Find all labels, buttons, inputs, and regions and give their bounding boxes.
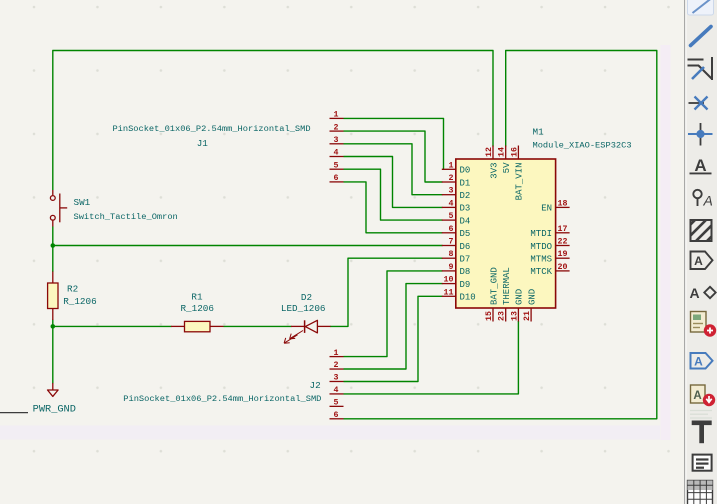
resistor R2 body [48, 272, 58, 321]
toolbar separator lines [690, 411, 712, 419]
svg-text:4: 4 [334, 386, 339, 395]
svg-text:23: 23 [498, 311, 507, 321]
svg-text:D2: D2 [301, 292, 312, 303]
M1 right pin names EN,MTDI,MTDO,MTMS,MTCK [530, 204, 552, 278]
M1 bottom pin numbers 15,23,13,21 [485, 311, 532, 321]
svg-text:R1: R1 [191, 292, 203, 303]
wire R1 pin 2 to LED D2 anode [224, 325, 292, 327]
wire R2 pin 2 down to junction B [52, 320, 54, 328]
toolbar icon: highlight net (top, partially cut) [688, 0, 714, 15]
resistor R1 body [171, 321, 224, 331]
J2 reference label [310, 380, 321, 391]
svg-text:R_1206: R_1206 [63, 296, 96, 307]
R2 value label R_1206 [63, 296, 96, 307]
svg-text:M1: M1 [533, 127, 545, 138]
svg-text:4: 4 [449, 199, 454, 208]
M1 top pin numbers 12,14,16 [485, 147, 519, 157]
svg-text:EN: EN [541, 204, 552, 214]
svg-text:1: 1 [334, 111, 339, 120]
svg-text:D10: D10 [460, 293, 476, 303]
junction A [51, 243, 56, 248]
wire net 3V3: from top-left rail to M1 pin 12 [53, 51, 493, 191]
M1 left pin names D0-D10 [460, 166, 476, 303]
toolbar icon: net label [690, 156, 712, 175]
svg-text:Module_XIAO-ESP32C3: Module_XIAO-ESP32C3 [533, 141, 632, 151]
wire J2 pin 3 to M1 pin 11 (D10) [344, 296, 443, 381]
svg-text:D5: D5 [460, 229, 471, 239]
svg-text:3V3: 3V3 [489, 163, 499, 179]
D2 reference label [301, 292, 312, 303]
svg-text:D8: D8 [460, 267, 471, 277]
J1 footprint label PinSocket_01x06_P2.54mm_Horizontal_SMD [112, 124, 310, 134]
wire J1 pin 3 to M1 pin 3 (D2) [344, 144, 443, 195]
toolbar icon: add text [692, 421, 712, 444]
M1 reference label [533, 127, 545, 138]
svg-text:16: 16 [510, 147, 519, 157]
wire LED D2 to M1 pin 8 (D7) [330, 258, 443, 326]
svg-text:18: 18 [558, 199, 568, 208]
svg-text:MTCK: MTCK [530, 267, 552, 277]
svg-text:MTDO: MTDO [530, 242, 552, 252]
svg-text:THERMAL: THERMAL [502, 267, 512, 305]
wire J1 pin 6 to M1 pin 6 (D5) [344, 182, 443, 233]
svg-text:2: 2 [449, 174, 454, 183]
svg-text:A: A [694, 355, 703, 369]
J2 footprint label PinSocket_01x06_P2.54mm_Horizontal_SMD [123, 394, 321, 404]
svg-text:D9: D9 [460, 280, 471, 290]
toolbar icon: global label [691, 252, 713, 270]
R2 reference label [67, 284, 78, 295]
toolbar icon: hierarchical sheet with add badge [691, 312, 717, 337]
wire junction B down to PWR_GND [52, 326, 54, 384]
svg-text:10: 10 [444, 276, 454, 285]
svg-text:5: 5 [334, 399, 339, 408]
svg-text:D2: D2 [460, 191, 471, 201]
R1 value label R_1206 [180, 303, 213, 314]
connector J1 pin stubs 1-6 [330, 118, 344, 181]
wire SW1 bottom to junction A [52, 227, 54, 247]
svg-text:5V: 5V [502, 162, 512, 173]
M1 right pin numbers 18,17,22,19,20 [558, 199, 568, 272]
svg-text:1: 1 [334, 349, 339, 358]
toolbar icon: no-connect flag [689, 97, 708, 110]
wire junction B to R1 pin 1 [53, 325, 172, 327]
D2 value label LED_1206 [281, 303, 326, 314]
svg-text:PinSocket_01x06_P2.54mm_Horizo: PinSocket_01x06_P2.54mm_Horizontal_SMD [123, 394, 321, 404]
svg-text:5: 5 [449, 212, 454, 221]
svg-text:7: 7 [449, 238, 454, 247]
toolbar icon: directive label [693, 190, 713, 209]
wire stub at left screen edge [0, 412, 28, 414]
svg-text:5: 5 [334, 161, 339, 170]
M1 left pins 1-11 (D0-D10) stubs [442, 169, 456, 296]
toolbar icon: add wire [691, 27, 712, 46]
svg-text:1: 1 [449, 161, 454, 170]
svg-text:2: 2 [334, 361, 339, 370]
svg-text:D7: D7 [460, 255, 471, 265]
PWR_GND net label [33, 404, 76, 416]
svg-text:8: 8 [449, 250, 454, 259]
svg-text:J1: J1 [197, 138, 209, 149]
svg-text:21: 21 [523, 311, 532, 321]
wire J2 pin 1 to M1 pin 9 (D8) [344, 271, 443, 357]
toolbar icon: import sheet pin with badge [691, 385, 716, 406]
module U/M1 body Module_XIAO-ESP32C3 [456, 159, 556, 308]
svg-text:A: A [689, 285, 699, 301]
svg-text:A: A [694, 156, 706, 175]
svg-text:15: 15 [485, 311, 494, 321]
svg-text:11: 11 [444, 288, 454, 297]
M1 bottom pin names BAT_GND,THERMAL,GND,GND [489, 267, 537, 305]
svg-text:Switch_Tactile_Omron: Switch_Tactile_Omron [74, 212, 178, 222]
toolbar icon: add text box [693, 455, 712, 471]
svg-text:J2: J2 [310, 380, 321, 391]
wire J1 pin 1 to M1 pin 1 (D0) [344, 118, 444, 169]
svg-text:2: 2 [334, 123, 339, 132]
SW1 reference label [74, 197, 91, 208]
M1 top pin names 3V3,5V,BAT_VIN [489, 162, 524, 200]
svg-text:13: 13 [510, 311, 519, 321]
svg-text:9: 9 [449, 263, 454, 272]
connector J2 pin stubs 1-6 [330, 357, 344, 419]
wire junction A down to R2 pin 1 [52, 245, 54, 272]
svg-text:D4: D4 [460, 216, 471, 226]
svg-text:6: 6 [334, 174, 339, 183]
J1 pin numbers 1-6 [334, 111, 339, 184]
svg-text:GND: GND [527, 289, 537, 305]
wire junction A to M1 pin 7 (D6) [53, 245, 443, 247]
svg-text:BAT_VIN: BAT_VIN [515, 163, 525, 201]
svg-text:D6: D6 [460, 242, 471, 252]
svg-text:BAT_GND: BAT_GND [489, 267, 499, 305]
M1 left pin numbers 1-11 [444, 161, 454, 297]
svg-text:R_1206: R_1206 [180, 303, 213, 314]
svg-text:17: 17 [558, 225, 568, 234]
svg-text:12: 12 [485, 147, 494, 157]
svg-text:D0: D0 [460, 166, 471, 176]
J1 reference label [197, 138, 209, 149]
svg-text:3: 3 [334, 136, 339, 145]
svg-text:14: 14 [498, 147, 507, 157]
wire net GND: M1 pin 13 down and left to J2 pin 4 [344, 321, 519, 394]
svg-text:3: 3 [449, 187, 454, 196]
wire J2 pin 2 to M1 pin 10 (D9) [344, 284, 443, 369]
svg-text:6: 6 [449, 225, 454, 234]
svg-text:GND: GND [515, 289, 525, 305]
svg-text:A: A [703, 193, 713, 209]
wire net 5V: M1 pin 14 up, across top, down right side, to J2 pin 6 [344, 51, 657, 419]
M1 bottom pins 15,23,13,21 stubs [493, 308, 531, 322]
svg-text:MTDI: MTDI [530, 229, 552, 239]
svg-text:LED_1206: LED_1206 [281, 303, 326, 314]
svg-text:PWR_GND: PWR_GND [33, 404, 76, 416]
wire J1 pin 4 to M1 pin 4 (D3) [344, 157, 443, 208]
M1 top pins 12,14,16 stubs [493, 146, 518, 160]
svg-text:PinSocket_01x06_P2.54mm_Horizo: PinSocket_01x06_P2.54mm_Horizontal_SMD [112, 124, 310, 134]
svg-text:SW1: SW1 [74, 197, 91, 208]
switch SW1 Switch_Tactile_Omron [50, 190, 67, 227]
toolbar icon: hierarchical label [689, 285, 715, 301]
J2 pin numbers 1-6 [334, 349, 339, 420]
svg-text:A: A [693, 390, 701, 402]
svg-text:4: 4 [334, 149, 339, 158]
wire J1 pin 2 to M1 pin 2 (D1) [344, 131, 443, 182]
M1 value label Module_XIAO-ESP32C3 [533, 141, 632, 151]
svg-text:R2: R2 [67, 284, 78, 295]
R1 reference label [191, 292, 203, 303]
svg-text:MTMS: MTMS [530, 255, 552, 265]
toolbar icon: wire-to-bus entry [688, 57, 713, 80]
svg-text:D1: D1 [460, 178, 471, 188]
M1 right pins EN,MTDI,MTDO,MTMS,MTCK stubs [556, 207, 570, 271]
SW1 value label Switch_Tactile_Omron [74, 212, 178, 222]
svg-text:19: 19 [558, 250, 568, 259]
svg-text:3: 3 [334, 374, 339, 383]
svg-text:A: A [694, 254, 703, 268]
svg-text:20: 20 [558, 263, 568, 272]
toolbar icon: add table (cut off at bottom) [688, 481, 713, 504]
power symbol PWR_GND [48, 383, 59, 396]
wire J1 pin 5 to M1 pin 5 (D4) [344, 169, 443, 220]
junction B [51, 324, 56, 329]
toolbar icon: place sheet pin [691, 353, 713, 369]
LED D2 body [284, 320, 330, 343]
svg-text:22: 22 [558, 238, 568, 247]
toolbar icon: add junction [688, 123, 713, 146]
svg-text:D3: D3 [460, 204, 471, 214]
svg-text:6: 6 [334, 411, 339, 420]
toolbar icon: rule area (hatched square) [678, 216, 717, 249]
